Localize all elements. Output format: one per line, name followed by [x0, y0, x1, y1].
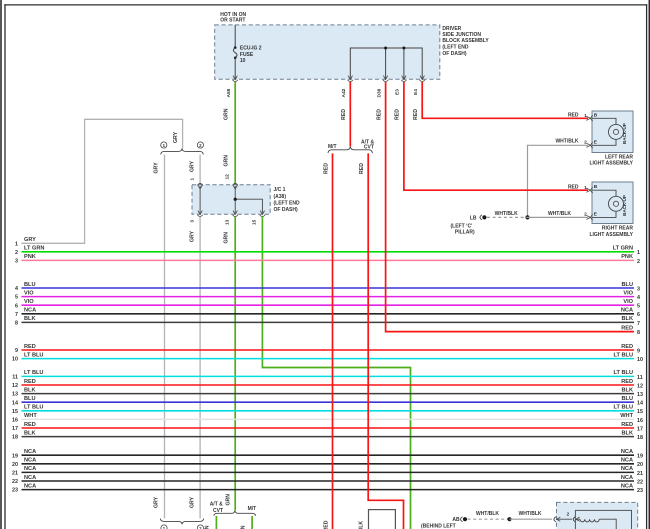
svg-text:5: 5 [637, 304, 640, 310]
wire WHT/BLK junction to right light pin 2 [528, 216, 589, 218]
svg-text:GRN: GRN [223, 232, 229, 244]
wire row L20 NCA [12, 458, 634, 468]
svg-text:23: 23 [12, 488, 18, 494]
internal wire with coil [557, 519, 617, 529]
svg-text:WHT: WHT [620, 413, 633, 419]
left rear light assembly box [592, 111, 633, 153]
svg-text:19: 19 [637, 454, 643, 460]
svg-text:BLK: BLK [24, 316, 36, 322]
svg-text:LT GRN: LT GRN [613, 246, 633, 252]
svg-text:NCA: NCA [24, 475, 36, 481]
svg-text:17: 17 [12, 426, 18, 432]
wire GRN pin 15 jumper to x=410.5 [262, 217, 410, 529]
wire row L21 NCA [12, 466, 634, 476]
svg-text:3: 3 [637, 286, 640, 292]
svg-text:12: 12 [12, 383, 18, 389]
label RED M/T at bottom [323, 520, 329, 529]
svg-text:16: 16 [637, 418, 643, 424]
right label row R5 VIO [623, 299, 640, 310]
right light internal wiring [592, 190, 616, 217]
svg-text:(BEHIND LEFT: (BEHIND LEFT [421, 524, 456, 529]
svg-text:1: 1 [190, 178, 196, 181]
svg-text:WHT/BLK: WHT/BLK [518, 511, 541, 517]
svg-text:VIO: VIO [24, 299, 34, 305]
svg-text:LT BLU: LT BLU [24, 352, 43, 358]
wire RED A/T&CVT branch [368, 153, 403, 529]
svg-text:LIGHT ASSEMBLY: LIGHT ASSEMBLY [589, 160, 633, 166]
connector pin 2 E left light [555, 139, 597, 149]
svg-text:6: 6 [637, 312, 640, 318]
svg-text:D38: D38 [376, 88, 382, 97]
label A/T & CVT bottom [210, 502, 223, 514]
svg-text:17: 17 [637, 426, 643, 432]
svg-text:(LEFT END: (LEFT END [274, 200, 300, 206]
node circled 1 [161, 142, 167, 148]
wire WHT/BLK from left light pin 2 down [528, 145, 589, 217]
svg-text:23: 23 [637, 488, 643, 494]
J/C 1 internal GRN path with branch [234, 186, 263, 213]
label J/C 1 (A38) (LEFT END OF DASH) [274, 187, 300, 213]
label RED A/T branch [359, 163, 365, 174]
right label row R11 LT BLU [614, 370, 643, 381]
merge brace GRY bottom [160, 519, 203, 525]
svg-text:RED: RED [24, 344, 36, 350]
svg-text:11: 11 [637, 375, 643, 381]
node circled 2 bottom [197, 525, 203, 529]
label GRY branch 1 [153, 162, 159, 174]
svg-text:RED: RED [621, 325, 633, 331]
svg-text:10: 10 [12, 357, 18, 363]
label GRY on incoming wire [173, 131, 179, 143]
svg-text:RED: RED [323, 163, 329, 174]
label GRN [223, 108, 229, 120]
label RED D38 [376, 109, 382, 120]
label GRN below J/C 1 [223, 232, 229, 244]
svg-text:2: 2 [584, 212, 587, 218]
splice brace GRN bottom A/T&CVT vs M/T [214, 511, 256, 516]
node circled 2 [197, 142, 203, 148]
svg-text:LT GRN: LT GRN [24, 246, 44, 252]
svg-text:WHT: WHT [24, 413, 37, 419]
label A/T & CVT [361, 139, 374, 150]
connector pin 2 E right light [584, 211, 598, 220]
label M/T [328, 144, 337, 150]
wire row L6 VIO [15, 299, 634, 309]
svg-text:12: 12 [224, 174, 230, 180]
dashed WHT/BLK wire from AB [468, 518, 510, 520]
svg-text:20: 20 [12, 462, 18, 468]
svg-text:NCA: NCA [621, 483, 633, 489]
svg-text:NCA: NCA [621, 308, 633, 314]
svg-text:20: 20 [637, 462, 643, 468]
svg-text:OF DASH): OF DASH) [274, 207, 299, 213]
svg-text:CVT: CVT [213, 508, 223, 514]
svg-text:18: 18 [637, 435, 643, 441]
wire E3 RED to right rear light [404, 82, 588, 190]
svg-text:BLU: BLU [24, 282, 36, 288]
label GRY below J/C 1 [189, 230, 195, 242]
inner solid box [575, 510, 631, 529]
svg-text:LEFT REAR: LEFT REAR [605, 154, 633, 160]
svg-text:GRN: GRN [240, 525, 246, 529]
wire row L19 NCA [12, 449, 634, 459]
right label row R14 BLU [622, 396, 644, 407]
svg-text:A58: A58 [226, 88, 232, 97]
junction block internal bus [350, 47, 422, 80]
svg-text:OF DASH): OF DASH) [442, 51, 467, 57]
svg-text:RED: RED [24, 422, 36, 428]
svg-text:RED: RED [568, 113, 579, 119]
driver side junction block assembly box [215, 25, 440, 79]
component box (cut off at bottom) [369, 510, 396, 529]
svg-text:E4: E4 [413, 89, 419, 95]
svg-text:NCA: NCA [24, 483, 36, 489]
svg-text:WHT/BLK: WHT/BLK [555, 139, 578, 145]
label GRN above J/C 1 [223, 155, 229, 167]
svg-text:M/T: M/T [248, 506, 257, 512]
svg-text:NCA: NCA [621, 458, 633, 464]
right label row R6 NCA [621, 308, 640, 319]
svg-text:ECU-IG 2: ECU-IG 2 [240, 45, 262, 51]
svg-text:BLK: BLK [622, 387, 634, 393]
wire row L5 VIO [15, 290, 634, 300]
svg-text:3: 3 [190, 220, 196, 223]
wire row L23 NCA [12, 483, 634, 493]
junction connector J/C 1 (A38) [192, 185, 270, 214]
svg-text:NCA: NCA [621, 466, 633, 472]
right label row R15 LT BLU [614, 405, 643, 416]
wire row L22 NCA [12, 475, 634, 485]
svg-text:14: 14 [637, 401, 643, 407]
svg-text:SIDE JUNCTION: SIDE JUNCTION [442, 32, 481, 38]
svg-text:VIO: VIO [623, 299, 633, 305]
svg-text:16: 16 [12, 418, 18, 424]
right label row R9 RED [621, 344, 640, 355]
svg-text:3: 3 [15, 259, 18, 265]
wire row L4 BLU [15, 282, 634, 292]
wire GRY branch 2 to J/C 1 [199, 155, 201, 185]
wire GRY branch 1 vertical [164, 155, 166, 519]
svg-text:RED: RED [359, 163, 365, 174]
wire row L17 RED [12, 422, 634, 432]
wire GRN A/T branch bottom [215, 516, 217, 529]
svg-text:GRY: GRY [153, 496, 159, 508]
svg-text:GRY: GRY [189, 160, 195, 172]
wire row L11 LT BLU [12, 370, 634, 380]
label WHT/BLK right segment [548, 211, 571, 217]
wire RED M/T branch [332, 153, 334, 529]
svg-text:RED: RED [621, 422, 633, 428]
svg-text:15: 15 [637, 409, 643, 415]
svg-text:2: 2 [15, 250, 18, 256]
svg-text:FUSE: FUSE [240, 52, 254, 58]
wire GRY below J/C 1 [199, 217, 201, 519]
wire row L18 BLK [12, 430, 634, 440]
svg-text:(A38): (A38) [274, 194, 287, 200]
svg-text:BLK: BLK [359, 521, 365, 529]
connector pin 1 B right light [568, 184, 598, 193]
pin 3 label [190, 220, 196, 223]
wire row L9 RED [15, 344, 634, 354]
label DRIVER SIDE JUNCTION BLOCK ASSEMBLY (LEFT END OF DASH) [442, 26, 489, 57]
label WHT/BLK [476, 511, 499, 517]
right label row R20 NCA [621, 458, 643, 469]
svg-text:WHT/BLK: WHT/BLK [548, 211, 571, 217]
label RED A42 [341, 109, 347, 120]
svg-text:LT BLU: LT BLU [614, 352, 633, 358]
svg-text:VIO: VIO [24, 290, 34, 296]
dashed WHT/BLK to LB connector [487, 216, 528, 218]
svg-text:21: 21 [637, 471, 643, 477]
svg-text:22: 22 [12, 479, 18, 485]
label BLK (cut) [359, 521, 365, 529]
svg-text:LT BLU: LT BLU [614, 405, 633, 411]
svg-text:10: 10 [637, 357, 643, 363]
wire row L12 RED [12, 379, 634, 389]
solid WHT/BLK wire to switch [510, 518, 553, 520]
svg-text:BLK: BLK [24, 387, 36, 393]
label BACK-UP left (rotated) [622, 123, 627, 144]
svg-text:NCA: NCA [24, 458, 36, 464]
right label row R21 NCA [621, 466, 643, 477]
right label row R10 LT BLU [614, 352, 643, 363]
right label row R1 LT GRN [613, 246, 640, 257]
dashed component box bottom right [557, 502, 638, 529]
svg-text:RED: RED [395, 109, 401, 120]
svg-text:(LEFT ‘C’: (LEFT ‘C’ [451, 223, 474, 229]
svg-text:LB: LB [470, 216, 477, 222]
svg-text:J/C 1: J/C 1 [274, 187, 286, 193]
connector symbols J/C 1 top pins [197, 183, 238, 189]
svg-text:PNK: PNK [621, 254, 633, 260]
svg-text:1: 1 [15, 241, 18, 247]
label GRN M/T branch (cut) [240, 525, 246, 529]
label GRN A/T branch (cut) [205, 525, 211, 529]
pin 1 label of J/C 1 [190, 178, 196, 181]
svg-text:LT BLU: LT BLU [24, 405, 43, 411]
svg-text:12: 12 [637, 383, 643, 389]
connector pin E3 [395, 76, 407, 95]
svg-text:M/T: M/T [328, 144, 337, 150]
svg-text:RED: RED [413, 109, 419, 120]
fuse ECU-IG 2 10A [233, 25, 237, 79]
svg-text:18: 18 [12, 435, 18, 441]
svg-text:BLK: BLK [24, 430, 36, 436]
bulb BACK-UP left [609, 124, 624, 139]
svg-text:NCA: NCA [621, 475, 633, 481]
svg-text:BLK: BLK [622, 316, 634, 322]
right label row R12 RED [621, 379, 643, 390]
svg-text:BACK-UP: BACK-UP [622, 195, 627, 216]
wire row L7 NCA [15, 308, 634, 318]
svg-text:13: 13 [637, 392, 643, 398]
svg-text:(LEFT END: (LEFT END [442, 45, 468, 51]
connector pin A42 [341, 76, 353, 98]
svg-text:8: 8 [15, 321, 18, 327]
svg-text:8: 8 [637, 330, 640, 336]
connector AB (BEHIND LEFT ...) [421, 517, 467, 529]
svg-text:RED: RED [376, 109, 382, 120]
label RED E3 [395, 109, 401, 120]
svg-text:WHT/BLK: WHT/BLK [476, 511, 499, 517]
wire E4 RED to left rear light [422, 82, 588, 118]
left light internal wiring [592, 118, 616, 145]
svg-text:VIO: VIO [623, 290, 633, 296]
label LEFT REAR LIGHT ASSEMBLY [589, 154, 633, 166]
connector pin D38 [376, 76, 388, 98]
svg-text:14: 14 [12, 400, 18, 406]
label HOT IN ON OR START [220, 12, 246, 24]
connector pin E4 [413, 76, 425, 95]
wire GRN M/T branch bottom [251, 516, 253, 529]
connector pin 2 symbols [554, 511, 580, 521]
label RED M/T branch [323, 163, 329, 174]
wire row L16 WHT [12, 413, 634, 423]
svg-text:BLOCK ASSEMBLY: BLOCK ASSEMBLY [442, 38, 489, 44]
svg-text:2: 2 [584, 140, 587, 146]
wire row L2 LT GRN [15, 246, 634, 256]
svg-text:RED: RED [621, 379, 633, 385]
wire row L15 LT BLU [12, 405, 634, 415]
svg-text:7: 7 [637, 321, 640, 327]
svg-text:RIGHT REAR: RIGHT REAR [602, 226, 634, 232]
svg-text:GRY: GRY [153, 162, 159, 174]
svg-text:1: 1 [637, 250, 640, 256]
svg-text:LT BLU: LT BLU [24, 370, 43, 376]
pin 15 label [252, 219, 258, 225]
svg-text:BACK-UP: BACK-UP [622, 123, 627, 144]
wire row L13 BLK [12, 387, 634, 397]
svg-text:7: 7 [15, 312, 18, 318]
junction node WHT/BLK [525, 215, 529, 219]
svg-text:A/T &: A/T & [210, 502, 223, 508]
svg-text:9: 9 [15, 348, 18, 354]
J/C 1 internal GRY path [199, 186, 201, 213]
svg-text:BLU: BLU [24, 396, 36, 402]
wire row L1 GRY [15, 237, 36, 247]
svg-text:E3: E3 [395, 89, 401, 95]
svg-text:PILLAR): PILLAR) [455, 230, 475, 236]
svg-text:RED: RED [621, 344, 633, 350]
label RIGHT REAR LIGHT ASSEMBLY [589, 226, 633, 238]
svg-text:13: 13 [12, 392, 18, 398]
svg-text:CVT: CVT [364, 145, 374, 151]
svg-text:GRY: GRY [189, 230, 195, 242]
label GRN bottom [225, 494, 231, 506]
svg-text:GRY: GRY [173, 131, 179, 143]
svg-text:BLU: BLU [622, 396, 634, 402]
svg-text:9: 9 [637, 348, 640, 354]
svg-text:5: 5 [15, 295, 18, 301]
label BACK-UP right (rotated) [622, 195, 627, 216]
right label row R16 WHT [620, 413, 643, 424]
svg-text:2: 2 [567, 511, 570, 517]
right label row R13 BLK [622, 387, 644, 398]
svg-text:NCA: NCA [24, 466, 36, 472]
svg-text:GRN: GRN [225, 494, 231, 506]
svg-text:BLK: BLK [622, 430, 634, 436]
wire D38 RED to right edge row 8 [386, 82, 634, 332]
node circled 1 bottom [161, 525, 167, 529]
svg-text:10: 10 [240, 58, 246, 64]
svg-text:4: 4 [637, 295, 640, 301]
label WHT/BLK left segment [495, 211, 518, 217]
wire row L8 BLK [15, 316, 634, 326]
connector pin 1 B left light [568, 112, 598, 121]
label M/T bottom [248, 506, 257, 512]
label ECU-IG 2 FUSE 10 [240, 45, 262, 64]
svg-text:RED: RED [323, 520, 329, 529]
label RED E4 [413, 109, 419, 120]
svg-text:AB: AB [452, 517, 460, 523]
wire GRN pin 13 vertical [234, 217, 236, 511]
right label row R22 NCA [621, 475, 643, 486]
right label row R23 NCA [621, 483, 643, 494]
label WHT/BLK 2 [518, 511, 541, 517]
svg-text:4: 4 [15, 286, 18, 292]
svg-text:LT BLU: LT BLU [614, 370, 633, 376]
wire row L10 LT BLU [12, 352, 634, 362]
pin 13 label [224, 219, 230, 225]
svg-text:A42: A42 [341, 88, 347, 97]
wire row L14 BLU [12, 396, 634, 406]
right label row R8 RED [621, 325, 640, 336]
svg-text:WHT/BLK: WHT/BLK [495, 211, 518, 217]
svg-text:GRN: GRN [223, 108, 229, 120]
wire A42 RED [349, 82, 351, 146]
svg-text:BLU: BLU [622, 282, 634, 288]
svg-text:NCA: NCA [621, 449, 633, 455]
junction node WHT/BLK bottom [507, 517, 511, 521]
connector pin A58 [226, 76, 238, 98]
svg-text:22: 22 [637, 479, 643, 485]
svg-text:13: 13 [224, 219, 230, 225]
splice brace A42 M/T vs A/T&CVT [328, 147, 372, 153]
svg-text:2: 2 [637, 259, 640, 265]
right label row R3 BLU [622, 282, 641, 293]
svg-text:21: 21 [12, 471, 18, 477]
svg-text:1: 1 [584, 185, 587, 191]
label GRY bottom branch 1 [153, 496, 159, 508]
svg-text:15: 15 [252, 219, 258, 225]
svg-text:B: B [594, 184, 598, 190]
svg-text:NCA: NCA [24, 449, 36, 455]
svg-text:19: 19 [12, 453, 18, 459]
svg-text:RED: RED [24, 379, 36, 385]
svg-text:PNK: PNK [24, 254, 36, 260]
svg-text:OR START: OR START [220, 18, 245, 24]
svg-text:6: 6 [15, 303, 18, 309]
svg-text:15: 15 [12, 409, 18, 415]
connector symbols J/C 1 bottom pins [197, 211, 265, 217]
svg-text:11: 11 [12, 375, 18, 381]
svg-text:GRY: GRY [24, 237, 36, 243]
right label row R19 NCA [621, 449, 643, 460]
svg-text:NCA: NCA [24, 308, 36, 314]
svg-text:RED: RED [341, 109, 347, 120]
right rear light assembly box [592, 182, 633, 224]
svg-text:LIGHT ASSEMBLY: LIGHT ASSEMBLY [589, 232, 633, 238]
svg-text:RED: RED [568, 185, 579, 191]
splice brace for GRY branches [161, 148, 204, 154]
wire row L3 PNK [15, 254, 634, 264]
svg-text:GRN: GRN [223, 155, 229, 167]
svg-text:GRY: GRY [189, 496, 195, 508]
bulb BACK-UP right [609, 196, 624, 211]
label GRY bottom branch 2 [189, 496, 195, 508]
right label row R17 RED [621, 422, 643, 433]
svg-text:1: 1 [584, 113, 587, 119]
